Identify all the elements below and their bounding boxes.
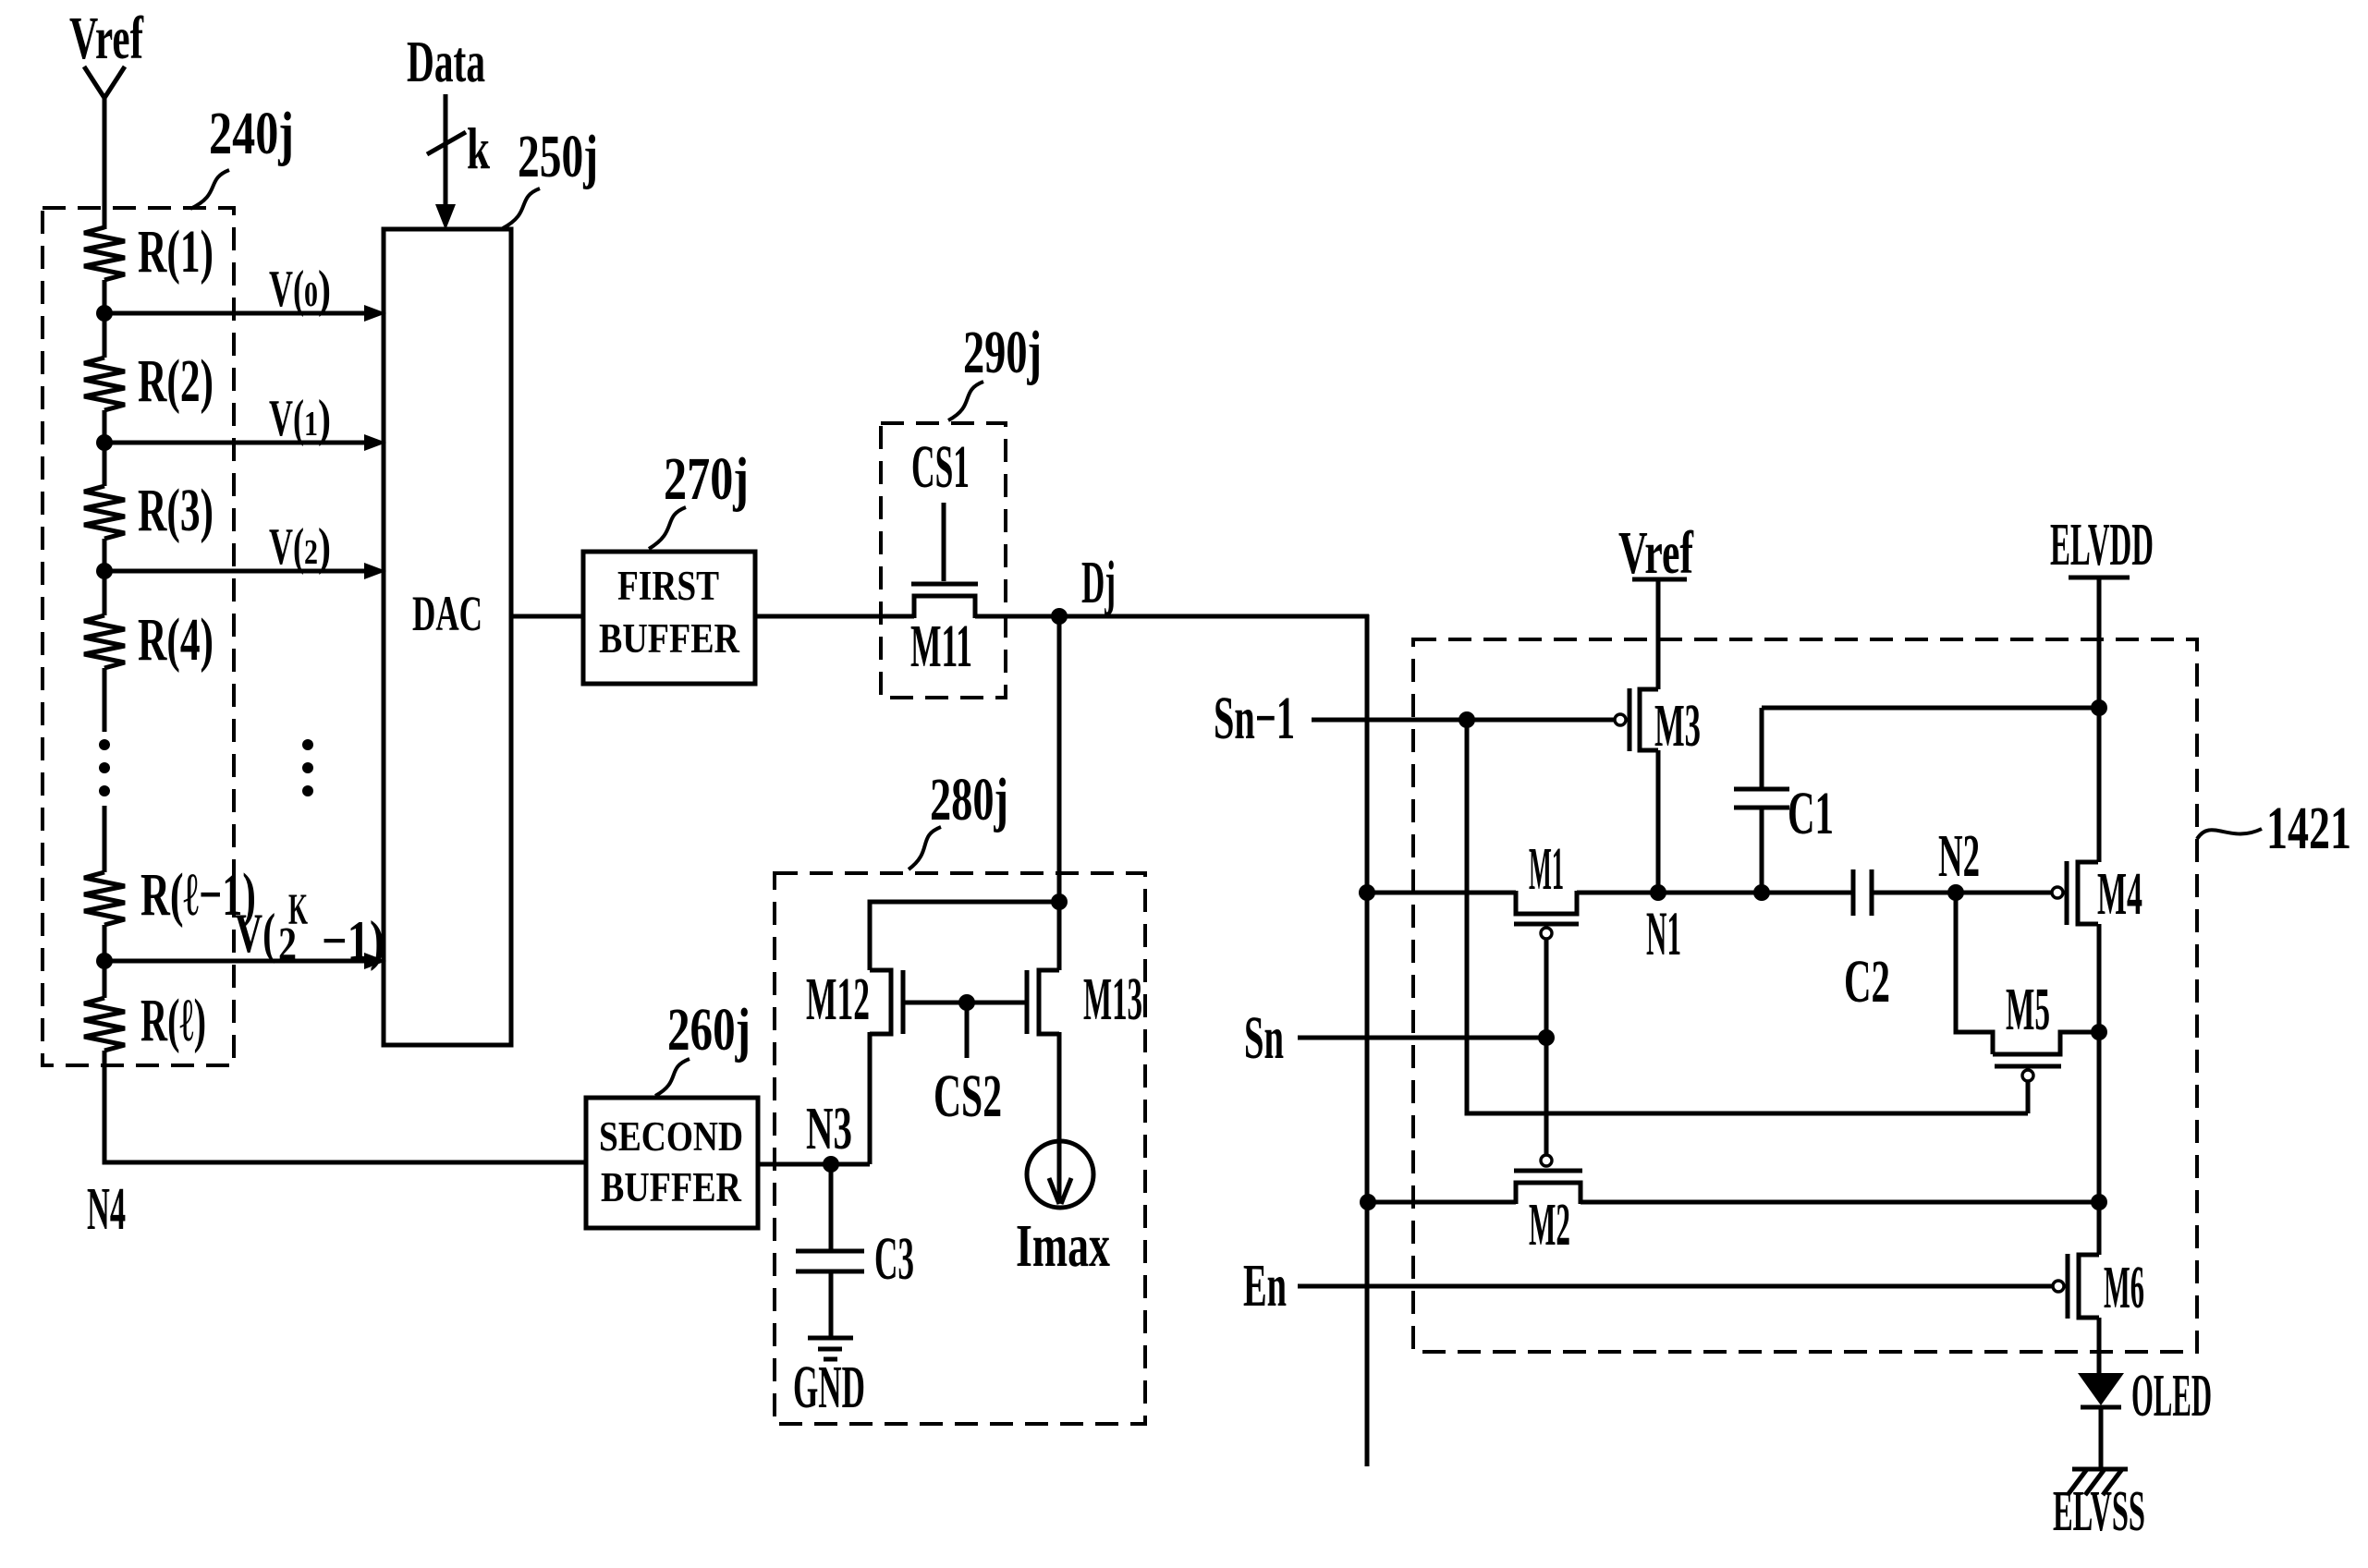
wire DAC to FIRST BUFFER <box>511 614 583 619</box>
svg-text:M4: M4 <box>2097 860 2142 928</box>
SECOND BUFFER block 260j <box>586 1098 758 1228</box>
bus width slash k <box>427 115 490 181</box>
node CS2 <box>934 994 1002 1130</box>
svg-text:M12: M12 <box>806 966 870 1033</box>
svg-text:M13: M13 <box>1083 966 1142 1033</box>
wire SECOND BUFFER to M12 source <box>758 1162 870 1167</box>
wire C1 top rail <box>1762 706 2099 711</box>
svg-text:−1): −1) <box>322 910 384 971</box>
resistor R(l-1) <box>84 861 256 929</box>
current source Imax <box>1016 1141 1110 1280</box>
transistor M3 <box>1615 688 1701 760</box>
svg-text:V(0): V(0) <box>269 261 331 318</box>
transistor M2 <box>1514 1155 1582 1258</box>
svg-text:C3: C3 <box>874 1225 914 1293</box>
node N2 <box>1938 822 1980 901</box>
svg-text:GND: GND <box>793 1354 865 1421</box>
junction C1 to N1 <box>1753 884 1770 901</box>
wire M3 source to N1 <box>1656 750 1661 893</box>
svg-text:DAC: DAC <box>412 586 482 641</box>
pixel dashed box 1421 <box>1413 639 2197 1352</box>
svg-text:N4: N4 <box>87 1175 126 1243</box>
wire top rail 280j <box>870 902 1059 970</box>
transistor M5 <box>1993 976 2099 1113</box>
svg-text:K: K <box>288 885 308 934</box>
wire Dj down into 280j box <box>1057 616 1062 902</box>
svg-text:N3: N3 <box>806 1095 852 1162</box>
wire N2 to M5 <box>1956 893 1993 1054</box>
node En enable line <box>1243 1252 2052 1319</box>
transistor M11 <box>910 503 978 680</box>
svg-text:Vref: Vref <box>69 5 144 72</box>
junction M5 to M4 drain line <box>2091 1024 2107 1040</box>
svg-text:R(4): R(4) <box>138 606 214 674</box>
svg-text:V(2): V(2) <box>269 518 331 576</box>
svg-text:R(2): R(2) <box>138 347 214 415</box>
svg-text:Dj: Dj <box>1081 549 1116 616</box>
svg-text:CS2: CS2 <box>934 1063 1002 1130</box>
capacitor C3 <box>796 1164 914 1336</box>
svg-text:BUFFER: BUFFER <box>599 615 739 662</box>
resistor R(1) <box>84 218 214 286</box>
wire R(1) to R(2) <box>103 280 107 358</box>
svg-text:M6: M6 <box>2104 1254 2144 1321</box>
junction Sn-1 branch <box>1459 711 1475 728</box>
node Dj <box>1051 549 1116 625</box>
transistor M1 <box>1514 835 1579 939</box>
diode OLED <box>2078 1362 2212 1469</box>
resistor R(4) <box>84 606 214 674</box>
svg-text:R(3): R(3) <box>138 477 214 544</box>
junction M2 to M6 drain <box>2091 1194 2107 1210</box>
wire Sn-1 branch to M5 gate <box>1467 720 2028 1113</box>
transistor M6 <box>2053 1254 2144 1321</box>
svg-text:En: En <box>1243 1252 1287 1319</box>
ladder ellipsis dots <box>99 739 110 796</box>
svg-text:ELVDD: ELVDD <box>2050 511 2154 578</box>
wire M4 drain down <box>2097 924 2102 1255</box>
capacitor C2 <box>1844 869 1890 1015</box>
junction C1 rail to ELVDD line <box>2091 699 2107 716</box>
svg-text:C1: C1 <box>1788 780 1834 847</box>
svg-text:M2: M2 <box>1529 1191 1570 1258</box>
wire R(l-1) to R(l) <box>103 925 107 998</box>
capacitor C1 <box>1734 708 1834 893</box>
svg-text:Vref: Vref <box>1618 519 1694 587</box>
ground ELVSS <box>2053 1469 2145 1543</box>
node CS1 label <box>911 433 970 501</box>
wire M6 source to OLED <box>2097 1318 2102 1375</box>
svg-text:FIRST: FIRST <box>617 563 719 609</box>
svg-text:M1: M1 <box>1529 835 1564 903</box>
svg-text:CS1: CS1 <box>911 433 970 501</box>
svg-text:260j: 260j <box>667 996 751 1064</box>
DAC block 250j <box>384 229 511 1045</box>
wire CS2 to M13 gate <box>967 1001 1027 1005</box>
resistor R(2) <box>84 347 214 415</box>
node N4 label <box>87 1175 126 1243</box>
svg-text:ELVSS: ELVSS <box>2053 1480 2145 1543</box>
svg-text:Sn: Sn <box>1244 1004 1284 1072</box>
svg-text:M3: M3 <box>1654 692 1701 760</box>
wire R(2) to R(3) <box>103 410 107 486</box>
wire M1 gate to Sn to M2 gate <box>1544 939 1549 1155</box>
node Vref pixel terminal <box>1618 519 1694 689</box>
svg-text:C2: C2 <box>1844 948 1890 1015</box>
wire below R(4) <box>103 668 107 732</box>
transistor M13 <box>1027 900 1142 1146</box>
svg-text:1421: 1421 <box>2266 795 2351 862</box>
dashed box 290j <box>881 423 1006 698</box>
svg-text:OLED: OLED <box>2131 1362 2212 1429</box>
wire R(3) to R(4) <box>103 539 107 615</box>
svg-text:R(1): R(1) <box>138 218 214 286</box>
svg-text:M5: M5 <box>2006 976 2050 1043</box>
svg-text:Data: Data <box>407 29 485 94</box>
transistor M4 <box>2052 860 2142 928</box>
label 260j with leader <box>655 996 751 1096</box>
node V(1) tap junction <box>96 434 113 451</box>
svg-text:280j: 280j <box>930 766 1008 833</box>
wire M11 to node Dj <box>975 614 1369 619</box>
svg-text:SECOND: SECOND <box>599 1113 743 1160</box>
FIRST BUFFER block 270j <box>583 552 755 684</box>
node N1 <box>1646 884 1681 968</box>
wire M2 row <box>1368 1200 2099 1205</box>
label 280j with leader <box>909 766 1008 869</box>
svg-text:N2: N2 <box>1938 822 1980 890</box>
resistor ladder dashed box 240j <box>43 208 234 1065</box>
node ELVDD terminal <box>2050 511 2154 862</box>
node V(0) tap junction <box>96 305 113 322</box>
wire dots to R(l-1) <box>103 806 107 872</box>
wire V(2^K-1) tap arrow into DAC <box>104 885 386 971</box>
svg-text:V(: V( <box>235 903 275 964</box>
node V(2) tap junction <box>96 563 113 579</box>
tap column ellipsis dots <box>302 739 313 796</box>
wire V(2) tap arrow into DAC <box>104 518 386 579</box>
junction data line to M2 <box>1360 1194 1376 1210</box>
node Data input <box>407 29 485 94</box>
wire V(1) tap arrow into DAC <box>104 390 386 451</box>
wire data line Dj vertical <box>1365 614 1370 1466</box>
wire N1 rail <box>1367 891 2051 895</box>
svg-text:240j: 240j <box>209 100 294 167</box>
svg-text:Imax: Imax <box>1016 1212 1110 1280</box>
wire Vref to R(1) <box>103 96 107 229</box>
transistor M12 <box>806 966 903 1164</box>
svg-text:N1: N1 <box>1646 898 1681 968</box>
resistor R(3) <box>84 477 214 544</box>
label 290j with leader <box>948 319 1042 420</box>
wire Data arrow into DAC <box>435 94 456 230</box>
node N3 <box>806 1095 852 1173</box>
wire N4 from R(l) to SECOND BUFFER <box>104 1051 586 1162</box>
svg-text:V(1): V(1) <box>269 390 331 447</box>
svg-text:R(ℓ): R(ℓ) <box>140 987 206 1054</box>
wire M12 gate to CS2 <box>903 1001 967 1005</box>
junction M12 M13 drains <box>1051 893 1068 910</box>
svg-text:270j: 270j <box>664 445 749 513</box>
dashed box 280j <box>775 873 1145 1424</box>
label 270j with leader <box>649 445 749 549</box>
label 240j with leader <box>190 100 294 209</box>
svg-text:250j: 250j <box>518 123 598 190</box>
resistor R(l) <box>84 987 206 1054</box>
wire V(0) tap arrow into DAC <box>104 261 386 322</box>
svg-text:Sn−1: Sn−1 <box>1214 685 1295 752</box>
svg-text:BUFFER: BUFFER <box>601 1164 741 1210</box>
label 1421 with leader squiggle <box>2197 795 2351 862</box>
svg-text:k: k <box>467 115 490 181</box>
svg-text:290j: 290j <box>963 319 1042 386</box>
label 250j with leader <box>503 123 598 228</box>
ground GND symbol <box>793 1338 865 1421</box>
svg-text:M11: M11 <box>910 613 972 680</box>
junction data line to M1 <box>1359 884 1375 901</box>
junction Sn to M1 M2 gates <box>1538 1029 1555 1046</box>
wire FIRST BUFFER to M11 <box>755 614 914 619</box>
node V(2^K-1) tap junction <box>96 953 113 969</box>
node Sn-1 scan line <box>1214 685 1615 752</box>
node Vref input terminal <box>69 5 144 98</box>
node Sn scan line <box>1244 1004 1546 1072</box>
